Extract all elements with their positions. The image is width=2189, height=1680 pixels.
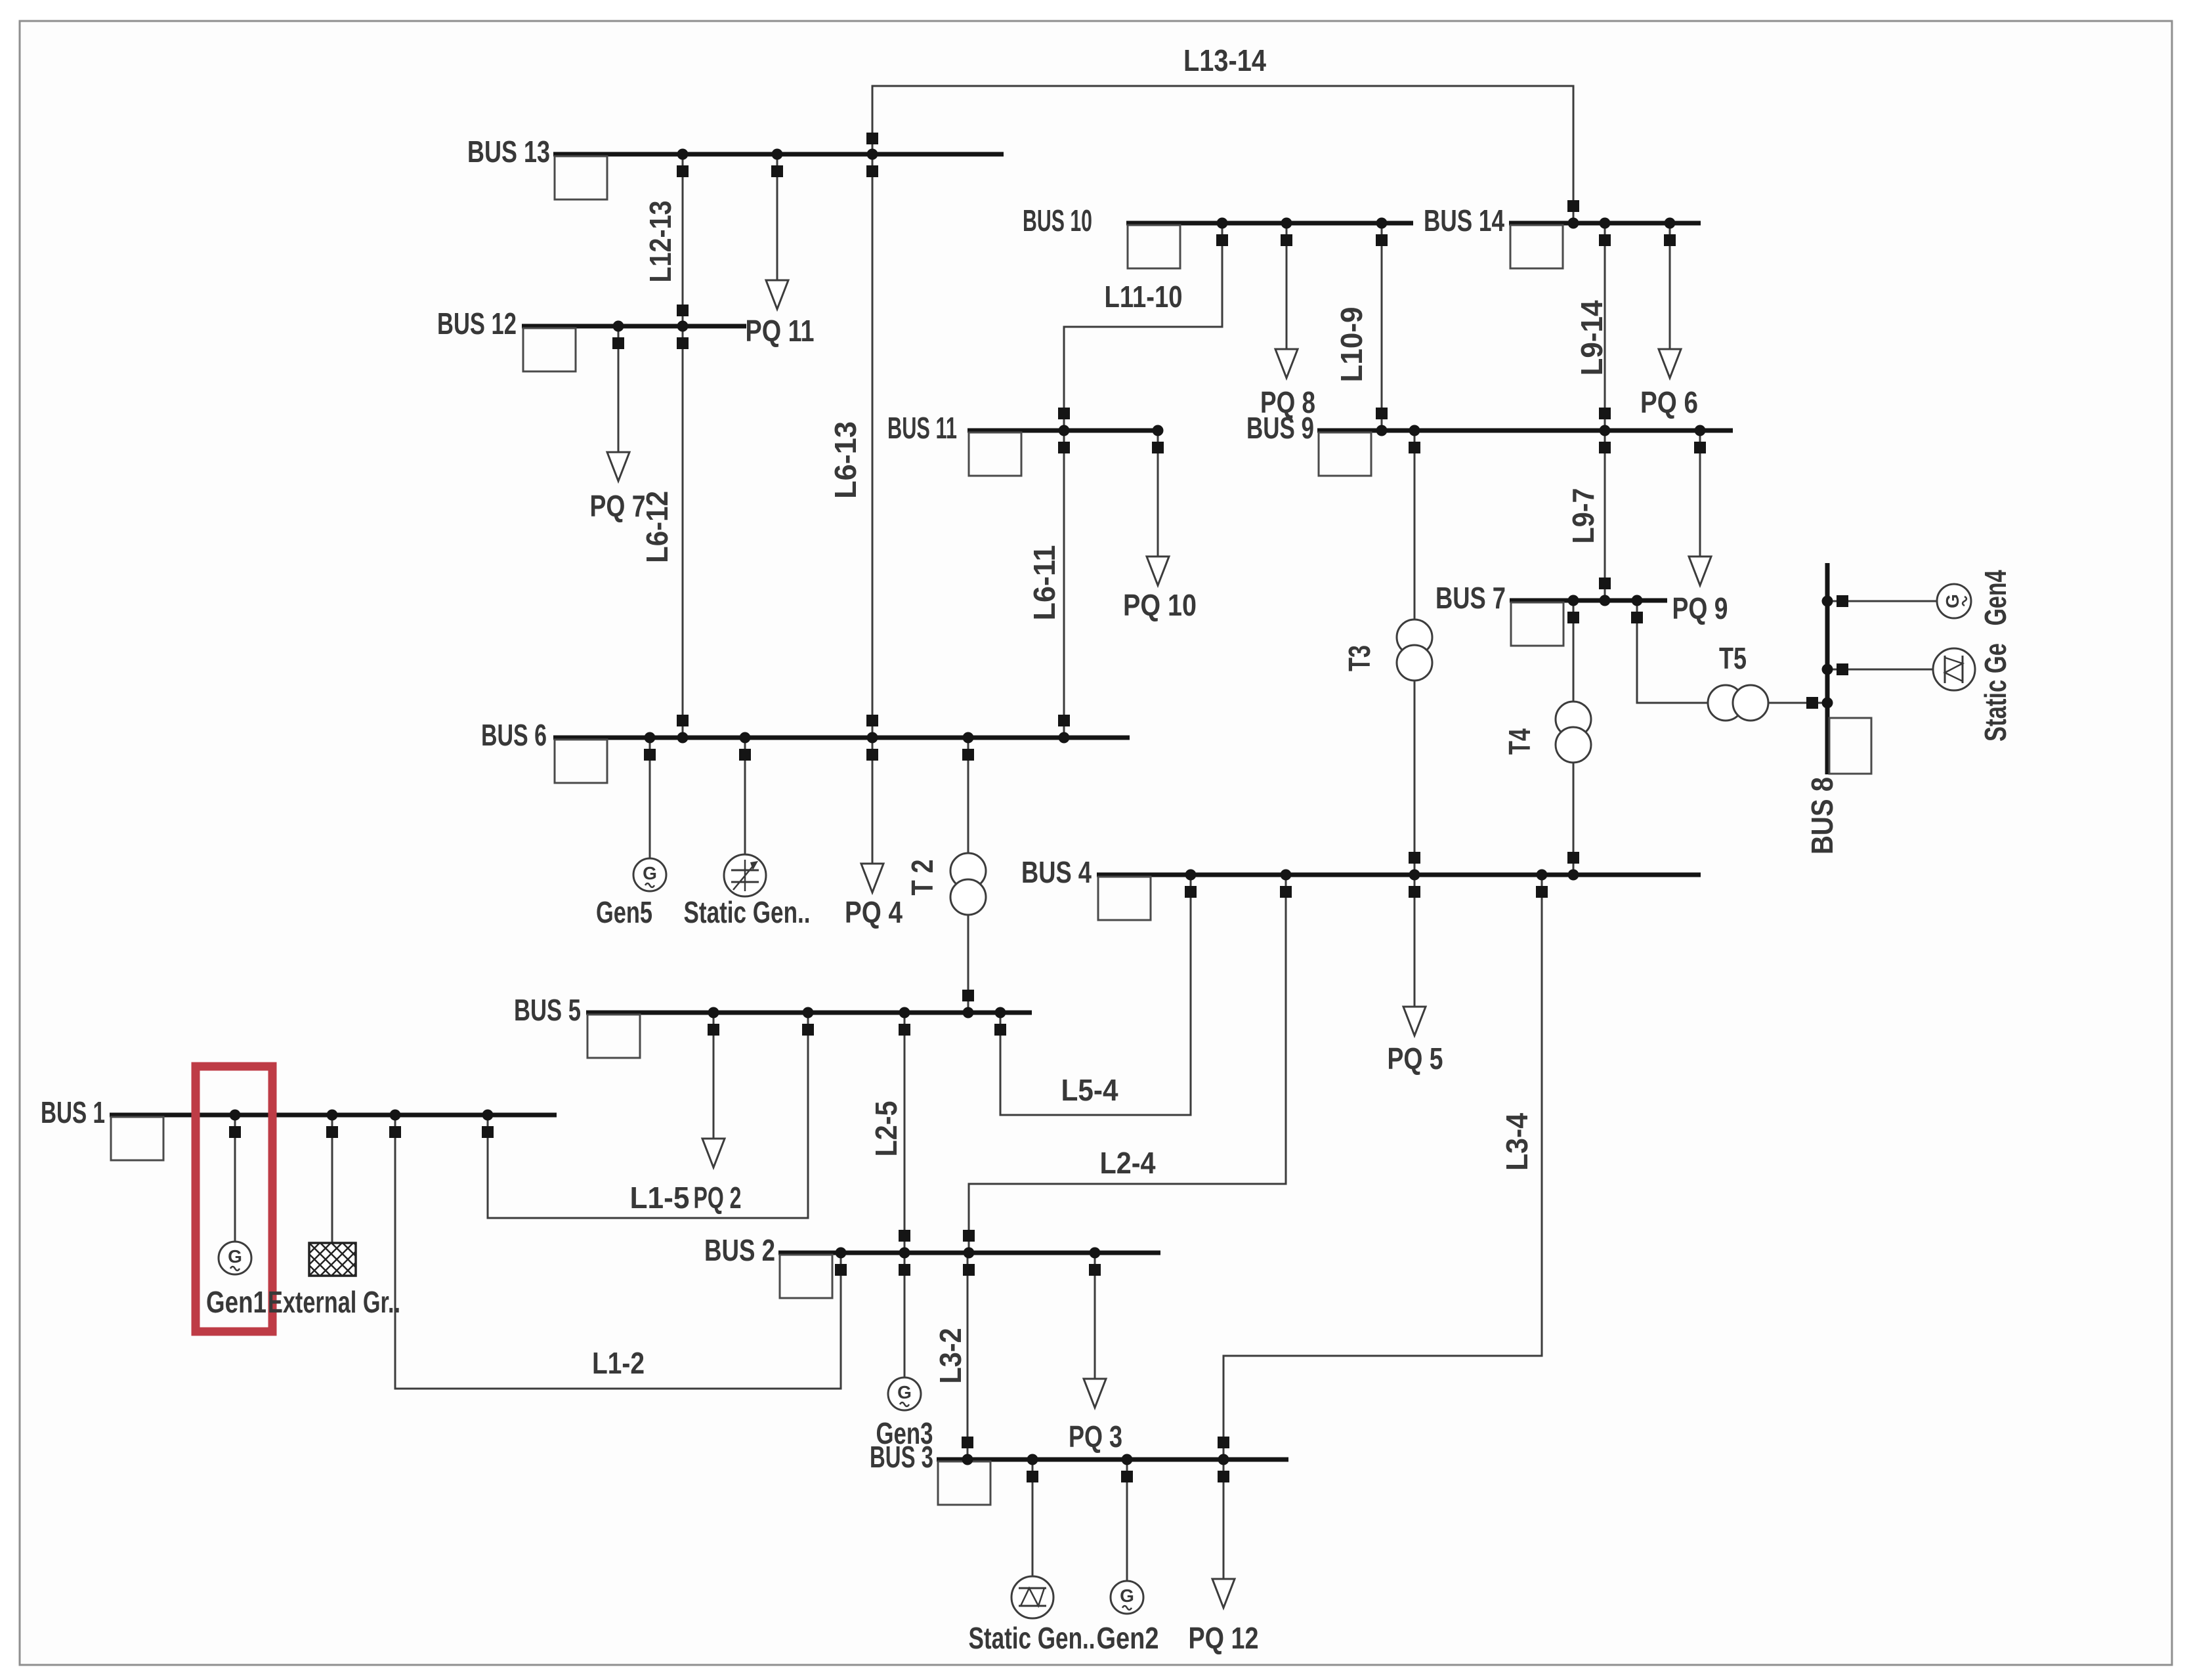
svg-text:PQ 8: PQ 8 — [1260, 385, 1315, 419]
svg-text:T3: T3 — [1342, 645, 1376, 671]
svg-text:G: G — [1120, 1585, 1134, 1606]
svg-text:PQ 5: PQ 5 — [1388, 1041, 1443, 1076]
svg-text:BUS 5: BUS 5 — [514, 993, 581, 1027]
svg-text:T5: T5 — [1719, 641, 1747, 675]
svg-text:L2-4: L2-4 — [1100, 1146, 1156, 1180]
svg-text:PQ 3: PQ 3 — [1069, 1419, 1122, 1454]
svg-text:BUS 4: BUS 4 — [1021, 855, 1092, 889]
svg-text:PQ 2: PQ 2 — [694, 1181, 742, 1215]
svg-text:L9-7: L9-7 — [1566, 488, 1600, 544]
svg-text:BUS 11: BUS 11 — [887, 411, 957, 445]
svg-text:PQ 10: PQ 10 — [1123, 588, 1197, 622]
svg-text:G: G — [228, 1246, 242, 1267]
svg-text:L1-5: L1-5 — [630, 1181, 690, 1215]
svg-text:BUS 1: BUS 1 — [41, 1095, 105, 1129]
svg-text:BUS 7: BUS 7 — [1435, 581, 1506, 615]
svg-text:L5-4: L5-4 — [1061, 1073, 1118, 1107]
svg-text:L6-12: L6-12 — [640, 491, 674, 563]
svg-text:T4: T4 — [1502, 728, 1537, 755]
svg-text:BUS 8: BUS 8 — [1805, 777, 1839, 854]
svg-text:L3-4: L3-4 — [1500, 1113, 1534, 1171]
svg-text:Gen3: Gen3 — [876, 1416, 933, 1450]
svg-text:Gen4: Gen4 — [1978, 570, 2012, 625]
svg-text:Gen1: Gen1 — [206, 1285, 266, 1319]
svg-text:G: G — [1942, 594, 1963, 608]
svg-text:PQ 12: PQ 12 — [1189, 1621, 1259, 1655]
svg-text:BUS 2: BUS 2 — [704, 1233, 775, 1267]
svg-text:L2-5: L2-5 — [869, 1101, 903, 1157]
svg-text:G: G — [643, 863, 657, 883]
svg-text:BUS 13: BUS 13 — [467, 135, 550, 169]
svg-text:PQ 9: PQ 9 — [1672, 591, 1728, 625]
svg-text:PQ 4: PQ 4 — [845, 895, 903, 929]
svg-text:BUS 6: BUS 6 — [481, 718, 547, 752]
svg-text:BUS 14: BUS 14 — [1424, 203, 1504, 238]
svg-text:Static Gen..: Static Gen.. — [684, 895, 811, 929]
svg-text:External Gr..: External Gr.. — [268, 1285, 400, 1319]
svg-text:L13-14: L13-14 — [1183, 43, 1266, 77]
svg-text:Static Gen..: Static Gen.. — [969, 1621, 1095, 1655]
svg-text:PQ 11: PQ 11 — [746, 314, 815, 348]
svg-text:PQ 7: PQ 7 — [590, 489, 646, 523]
svg-text:T 2: T 2 — [905, 860, 939, 896]
svg-text:BUS 10: BUS 10 — [1023, 203, 1092, 238]
svg-text:BUS 12: BUS 12 — [437, 306, 517, 341]
svg-text:L9-14: L9-14 — [1575, 300, 1609, 375]
svg-text:L6-13: L6-13 — [828, 421, 862, 499]
svg-text:Gen2: Gen2 — [1097, 1621, 1159, 1655]
svg-text:L6-11: L6-11 — [1027, 545, 1061, 621]
svg-text:Static Ge: Static Ge — [1978, 643, 2012, 742]
svg-text:L12-13: L12-13 — [643, 201, 677, 283]
svg-text:L10-9: L10-9 — [1334, 307, 1369, 383]
svg-text:G: G — [897, 1382, 912, 1402]
svg-text:L3-2: L3-2 — [933, 1328, 967, 1384]
svg-text:Gen5: Gen5 — [596, 895, 652, 929]
svg-text:PQ 6: PQ 6 — [1640, 385, 1698, 419]
svg-text:L11-10: L11-10 — [1105, 280, 1183, 314]
svg-text:L1-2: L1-2 — [592, 1346, 645, 1380]
